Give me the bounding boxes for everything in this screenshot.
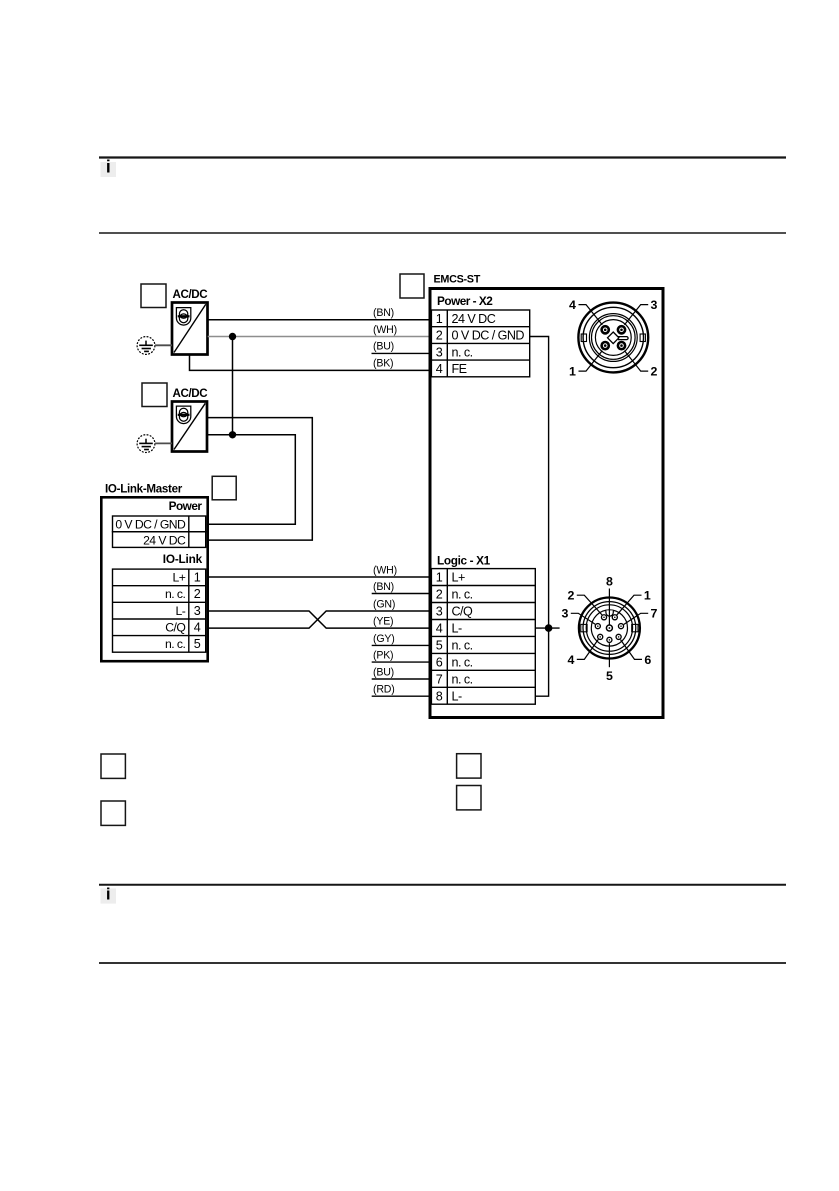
X2 pin labels [452,312,525,376]
wire (BK) T1 FE to X2 pin 4 [190,355,431,371]
svg-text:(WH): (WH) [373,324,397,336]
X2 pin 3 leader [624,305,648,325]
svg-text:n. c.: n. c. [452,588,473,602]
svg-text:1: 1 [436,312,443,326]
svg-text:i: i [106,884,111,903]
junction dot node 0V (bottom) [229,431,236,438]
svg-text:(BU): (BU) [373,341,394,353]
wire stub (BN) to X1 pin 2 [372,593,430,595]
svg-text:(BU): (BU) [373,667,394,679]
svg-text:C/Q: C/Q [452,605,473,619]
svg-text:0 V DC / GND: 0 V DC / GND [452,329,525,343]
wire T2 0V to IO-Link-Master [207,435,295,524]
svg-text:4: 4 [194,621,201,635]
rule below note [99,232,786,234]
wire PE2 to T2 [155,442,172,444]
svg-text:8: 8 [436,689,443,703]
X1 face ring 4 [591,610,627,646]
wire (YE) master C/Q crossing to X1 pin 3 [208,611,430,628]
svg-text:IO-Link-Master: IO-Link-Master [105,483,183,496]
svg-text:8: 8 [606,575,613,589]
wire PE1 to T1 [155,344,172,346]
closing rule [99,962,786,964]
wire T2 24V to IO-Link-Master [207,418,312,540]
X2 pin 2 leader [624,351,648,372]
X1 pin 4 contact [598,634,603,639]
internal 0V bus wire X2 pin2 to X1 pin8 [530,337,549,697]
svg-text:IO-Link: IO-Link [163,552,203,566]
wire (BN) T1 24V to X2 pin 1 [208,319,430,321]
X2 face ring 4 [592,316,636,360]
svg-text:EMCS-ST: EMCS-ST [434,274,481,286]
T1 safety isolating transformer symbol [176,308,190,326]
X2 face ring 5 [595,320,631,356]
svg-text:5: 5 [194,637,201,651]
X2 center keyway diamond [608,332,629,344]
power supply T2 box [172,402,207,452]
svg-text:2: 2 [436,329,443,343]
protective earth symbol PE2 [137,435,155,453]
wire stub (PK) to X1 pin 6 [372,661,430,663]
svg-text:(YE): (YE) [373,616,393,628]
internal wire X1 pin4 tap [535,627,559,629]
X1 left key notch [581,624,587,631]
svg-text:(GY): (GY) [373,633,395,645]
svg-text:2: 2 [436,588,443,602]
wire (WH) T1 0V to X2 pin 2 [208,336,430,338]
connector X1 table [431,569,535,705]
X1 pin 2 contact [601,615,606,620]
svg-text:1: 1 [569,365,576,379]
X2 pin numbers [436,312,443,376]
X2 right key notch [640,334,645,342]
IO-Link-Master box [101,497,207,661]
wire stub (RD) to X1 pin 8 [372,695,430,697]
X1 pin 3 leader [571,613,595,624]
svg-text:24 V DC: 24 V DC [452,312,496,326]
callout box 2 [142,383,167,407]
svg-text:7: 7 [651,607,658,621]
svg-text:5: 5 [606,669,613,683]
svg-text:3: 3 [436,345,443,359]
X1 pin 1 leader [617,595,642,615]
svg-text:5: 5 [436,638,443,652]
svg-text:3: 3 [562,607,569,621]
X2 pin 1 leader [579,351,603,372]
X1 pin 3 contact [595,624,600,629]
svg-text:(BN): (BN) [373,581,394,593]
svg-text:0 V DC / GND: 0 V DC / GND [115,518,186,532]
X1 face ring 2 [583,602,636,655]
X1 pin 7 contact [618,624,623,629]
X2 pin 1 contact [602,342,609,349]
wire 0V tie between supplies [232,337,234,435]
X1 pin numbers [436,571,443,704]
X1 pin 8 contact (center) [606,625,612,631]
svg-text:3: 3 [194,604,201,618]
X1 pin 6 leader [621,640,643,660]
X2 left key notch [581,334,586,342]
svg-text:1: 1 [436,571,443,585]
svg-text:4: 4 [436,362,443,376]
master pin labels [165,571,186,652]
X1 face ring 3 [586,605,632,651]
X1 pin 1 contact [612,615,617,620]
junction dot internal L- node [545,624,553,632]
svg-text:Power - X2: Power - X2 [437,294,493,308]
protective earth symbol PE1 [137,337,155,355]
wire (GN) master L- crossing to X1 pin 4 [208,611,430,628]
junction dot node 0V (top) [229,333,236,340]
wire stub (BU) to X1 pin 7 [372,678,430,680]
svg-text:i: i [106,157,111,177]
svg-text:C/Q: C/Q [165,621,185,635]
X2 pin 4 leader [579,305,603,325]
legend callout square 2 [101,801,125,825]
X1 pin 8 leader [608,589,610,625]
svg-text:n. c.: n. c. [165,587,185,601]
svg-text:L-: L- [452,689,462,703]
T1 diagonal [174,304,206,352]
svg-text:AC/DC: AC/DC [173,288,209,301]
connector face M8 4-pin (Power X2) [569,298,658,379]
svg-text:3: 3 [436,605,443,619]
connector face M8 8-pin (Logic X1) [562,575,658,683]
svg-text:FE: FE [452,362,467,376]
bottom rule [99,884,786,886]
wire stub (GY) to X1 pin 5 [372,644,430,646]
X1 pin 2 leader [577,595,602,615]
connector X2 table [431,310,529,377]
legend callout square 1 [101,754,125,778]
T2 diagonal [174,403,205,449]
svg-text:2: 2 [651,365,658,379]
legend callout square 5 [457,786,481,810]
master io-link table [113,569,206,652]
svg-text:2: 2 [568,589,575,603]
svg-text:4: 4 [436,622,443,636]
svg-text:(BN): (BN) [373,307,394,319]
callout box 1 [141,284,166,308]
svg-text:(GN): (GN) [373,599,395,611]
svg-text:Power: Power [169,499,203,513]
wire stub (BU) to X2 pin 3 [372,352,431,354]
T2 safety isolating transformer symbol [176,406,190,423]
svg-text:4: 4 [569,298,576,312]
master power rows [113,516,206,547]
X1 pin 4 leader [577,639,599,659]
svg-text:3: 3 [651,298,658,312]
svg-text:Logic - X1: Logic - X1 [437,553,491,567]
callout box 4 (EMCS-ST) [400,274,424,298]
X1 top keyway notch [606,610,613,616]
X1 face outer ring [579,598,640,659]
svg-text:AC/DC: AC/DC [173,387,209,400]
svg-text:1: 1 [644,589,651,603]
svg-text:(BK): (BK) [373,358,393,370]
top rule [99,156,786,158]
X1 pin labels [452,571,473,704]
info icon (note 2) [101,884,117,903]
X2 pin 3 contact [618,326,625,333]
X1 pin 5 leader [608,643,610,667]
X1 right key notch [632,624,638,631]
EMCS-ST box [430,289,663,718]
legend callout square 4 [457,754,481,778]
X1 pin 6 contact [616,634,621,639]
svg-text:n. c.: n. c. [452,638,473,652]
info icon (note) [101,157,117,177]
svg-text:L-: L- [176,604,186,618]
svg-text:n. c.: n. c. [452,345,473,359]
svg-text:24 V DC: 24 V DC [143,533,186,547]
svg-text:n. c.: n. c. [452,672,473,686]
svg-text:L+: L+ [173,571,186,585]
svg-text:(PK): (PK) [373,650,393,662]
X2 pin 2 contact [618,342,625,349]
X2 face ring 2 [583,307,643,367]
svg-text:6: 6 [436,655,443,669]
X2 face ring 3 [589,314,637,362]
svg-text:(WH): (WH) [373,565,397,577]
callout box 3 [212,476,236,500]
X1 pin 7 leader [624,613,649,624]
svg-text:L+: L+ [452,571,465,585]
svg-text:6: 6 [644,653,651,667]
svg-text:1: 1 [194,571,201,585]
svg-text:n. c.: n. c. [452,655,473,669]
X2 pin 4 contact [602,326,609,333]
svg-text:7: 7 [436,672,443,686]
svg-text:(RD): (RD) [373,684,395,696]
svg-text:4: 4 [568,653,575,667]
svg-text:2: 2 [194,587,201,601]
power supply T1 box [172,303,208,355]
wire (WH) master L+ to X1 pin 1 [208,576,430,578]
X1 pin 5 contact [607,637,612,642]
svg-text:L-: L- [452,622,462,636]
svg-text:n. c.: n. c. [165,637,185,651]
master pin numbers [194,571,201,652]
X2 face outer ring [578,303,648,373]
